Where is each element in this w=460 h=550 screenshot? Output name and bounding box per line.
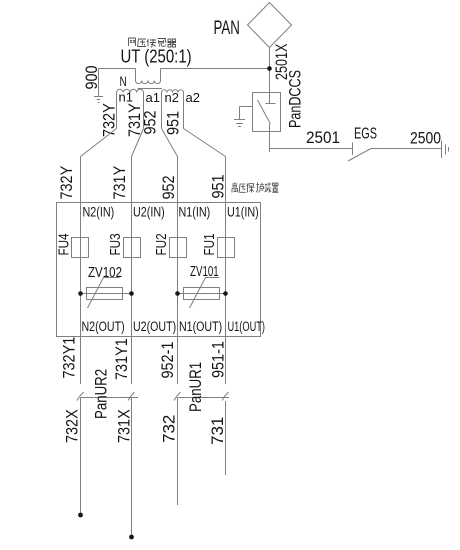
wire DCCS ground stub <box>240 107 253 120</box>
fuse FU3 <box>124 238 141 258</box>
wire N2 through box <box>80 203 82 337</box>
varistor ZV101 body <box>184 288 220 300</box>
varistor ZV102 body <box>87 288 123 300</box>
svg-text:a1: a1 <box>146 90 160 105</box>
svg-text:FU1: FU1 <box>201 233 218 255</box>
svg-text:732Y: 732Y <box>100 103 118 137</box>
svg-text:FU3: FU3 <box>107 233 124 255</box>
svg-text:952: 952 <box>160 175 178 199</box>
junction dots ZV102 <box>78 291 83 296</box>
switch PanDCCS box <box>253 93 281 132</box>
connector PanUR2 bar <box>81 397 139 399</box>
svg-text:N: N <box>120 73 127 89</box>
wire U2 through box <box>131 203 133 337</box>
wire 732Y vertical to box <box>80 157 82 203</box>
svg-text:n1: n1 <box>119 90 133 105</box>
terminal dot 732X <box>78 513 83 518</box>
svg-text:ZV101: ZV101 <box>190 263 219 280</box>
transformer secondary winding 2 (n2-a2) <box>162 90 184 93</box>
svg-text:U1(IN): U1(IN) <box>227 204 259 220</box>
svg-text:FU2: FU2 <box>153 233 170 255</box>
svg-text:PanUR2: PanUR2 <box>92 369 111 419</box>
wire 731Y vertical to box <box>131 157 133 203</box>
svg-text:952: 952 <box>141 110 159 134</box>
wire 2501 <box>270 148 353 150</box>
wire 732X <box>80 398 82 516</box>
svg-text:2501: 2501 <box>306 128 340 147</box>
terminal dot 731X <box>129 535 134 540</box>
varistor ZV102 link wire <box>81 293 132 295</box>
svg-text:PAN: PAN <box>214 18 240 39</box>
svg-text:U1(OUT): U1(OUT) <box>228 318 266 335</box>
svg-text:732X: 732X <box>63 409 81 443</box>
junction 2501X node dot <box>267 66 272 71</box>
wire 731Y1 below box <box>131 337 133 385</box>
wire 732 <box>177 398 179 506</box>
svg-text:952-1: 952-1 <box>159 342 177 379</box>
svg-text:ZV102: ZV102 <box>88 264 122 281</box>
connector PanUR2 pin ticks <box>77 392 84 401</box>
wire 900 drop to ground <box>98 69 100 97</box>
wire primary top, right segment to node <box>161 68 270 70</box>
wire 731 <box>225 401 227 475</box>
wire a2 fan-out diagonal <box>184 129 226 157</box>
svg-text:951: 951 <box>209 174 227 198</box>
wire 900 (primary top wire, left segment) <box>99 68 136 70</box>
transformer secondary winding 1 (n1-a1) <box>117 89 144 92</box>
svg-text:N2(OUT): N2(OUT) <box>82 319 125 335</box>
transformer core line <box>138 88 163 90</box>
ground (right, earth switch) <box>442 141 449 159</box>
connector PanUR1 pin ticks <box>174 392 181 401</box>
transformer UT primary winding <box>136 69 161 81</box>
ground (at PanDCCS) <box>234 120 245 127</box>
wire 731X <box>131 398 133 538</box>
ground (left, at 900 wire) <box>94 97 103 103</box>
svg-text:U2(OUT): U2(OUT) <box>133 319 176 335</box>
disconnector EGS <box>348 143 371 162</box>
wire PAN drop <box>269 48 271 93</box>
junction dots ZV101 <box>175 291 180 296</box>
connector PanUR1 bar <box>178 397 230 399</box>
svg-text:951: 951 <box>164 111 182 135</box>
wire N1 through box <box>177 203 179 337</box>
wire 952-1 below box <box>177 337 179 385</box>
box 高压保护装置 (protection device) <box>57 203 261 337</box>
node PAN diamond <box>248 3 292 48</box>
fuse FU2 <box>170 238 187 258</box>
wire 951-1 below box <box>225 337 227 385</box>
wire 951 vertical to box <box>225 157 227 203</box>
wire 732Y1 below box <box>80 337 82 385</box>
label 网压传感器 (voltage sensor title, drawn strokes) <box>129 38 177 48</box>
svg-text:N1(OUT): N1(OUT) <box>179 319 222 335</box>
svg-text:a2: a2 <box>186 90 200 105</box>
wire n1 fan-out diagonal <box>81 129 117 157</box>
wire n2 fan-out diagonal <box>162 129 178 157</box>
svg-text:PanDCCS: PanDCCS <box>286 70 305 128</box>
svg-text:PanUR1: PanUR1 <box>187 362 206 412</box>
switch PanDCCS contact <box>258 93 276 153</box>
label 高压保护装置 (protection box title, drawn strokes) <box>232 182 278 192</box>
svg-text:951-1: 951-1 <box>209 341 227 378</box>
fuse FU4 <box>72 238 89 258</box>
wire 2500 <box>371 148 442 150</box>
svg-text:732: 732 <box>160 415 179 443</box>
svg-text:n2: n2 <box>165 90 179 105</box>
svg-text:2500: 2500 <box>410 129 441 148</box>
svg-text:732Y: 732Y <box>58 165 76 199</box>
svg-text:731: 731 <box>208 417 227 445</box>
svg-text:EGS: EGS <box>354 124 377 142</box>
wire U1 through box <box>225 203 227 337</box>
svg-text:N2(IN): N2(IN) <box>83 204 115 220</box>
wire a1 fan-out diagonal <box>132 129 144 157</box>
wire 952 vertical to box <box>177 157 179 203</box>
fuse FU1 <box>218 238 235 258</box>
svg-text:FU4: FU4 <box>55 233 72 256</box>
svg-text:U2(IN): U2(IN) <box>133 204 165 220</box>
svg-text:UT (250:1): UT (250:1) <box>121 46 192 67</box>
svg-text:N1(IN): N1(IN) <box>179 204 211 220</box>
svg-text:731Y: 731Y <box>111 165 129 199</box>
svg-text:731Y1: 731Y1 <box>113 338 131 380</box>
varistor ZV101 link wire <box>178 293 226 295</box>
svg-text:731X: 731X <box>115 409 133 443</box>
svg-text:732Y1: 732Y1 <box>60 337 78 379</box>
